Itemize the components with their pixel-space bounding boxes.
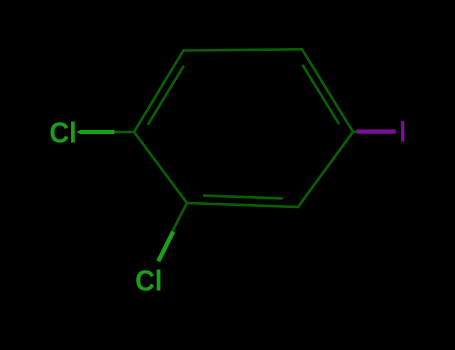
double bond inner line C2=C3: [204, 196, 282, 199]
bond to Cl (left), chlorine colored half: [80, 130, 115, 134]
wire C1-Cl bond inner dark half: [112, 131, 134, 134]
wire bond C2-C1 (BL to L): [134, 132, 187, 203]
svg-text:Cl: Cl: [135, 265, 162, 297]
wire bond C4-C3 (R to BR): [298, 132, 353, 207]
wire bond C1-C6 (L to TL): [134, 51, 183, 132]
bond to Cl (bottom), chlorine colored half: [158, 232, 173, 262]
wire bond C3-C2 (BR to BL, bottom edge): [187, 203, 298, 207]
wire C2-Cl bond inner dark half: [171, 203, 187, 234]
benzene ring C1-C6 skeleton: [112, 49, 358, 234]
wire bond C5-C4 (TR to R): [302, 49, 353, 132]
bond to I, iodine colored: [357, 129, 396, 133]
wire C4-I bond stub: [353, 130, 358, 133]
double bond inner line C4=C5: [303, 66, 339, 124]
wire bond C6-C5 (TL to TR, top edge): [183, 49, 302, 50]
svg-text:Cl: Cl: [49, 117, 76, 149]
double bond inner line C1=C6: [148, 67, 183, 124]
atom label I (right, C4 substituent): [401, 121, 404, 142]
